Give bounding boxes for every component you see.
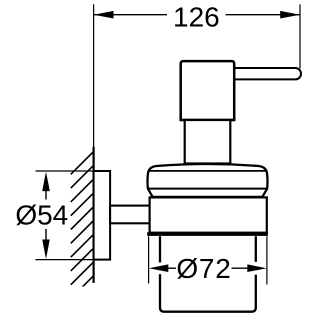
wire: right extension line of dimension 126 (spout tip) bbox=[299, 4, 301, 68]
svg-text:126: 126 bbox=[173, 2, 220, 33]
dome upper seam line bbox=[148, 170, 266, 172]
wire: left extension line of dimension 126 (wall face) bbox=[93, 4, 95, 147]
arrow down of dimension 54 bbox=[42, 240, 50, 260]
arrow left of dimension 72 bbox=[149, 264, 169, 272]
wire: dimension line 54 upper segment bbox=[45, 190, 47, 200]
halo mask over glass wall left (dimension crossing) bbox=[156, 262, 164, 274]
wall face line bbox=[92, 147, 94, 283]
dispenser dome lid bbox=[148, 164, 268, 197]
arrow up of dimension 54 bbox=[42, 172, 50, 192]
holder collar bbox=[150, 197, 267, 232]
holder arm bbox=[110, 206, 150, 224]
wire: bottom extension line of dimension 54 bbox=[36, 259, 94, 261]
wire: dimension line 54 lower segment bbox=[45, 229, 47, 241]
halo mask over glass wall right (dimension crossing) bbox=[252, 262, 260, 275]
collar base thick rim bbox=[147, 232, 268, 236]
arrow right of dimension 72 bbox=[247, 264, 266, 272]
wall plate (Ø54 rosette, side view) bbox=[94, 171, 111, 260]
wall hatching bbox=[71, 152, 94, 313]
pump head bbox=[181, 61, 235, 120]
svg-text:Ø54: Ø54 bbox=[15, 199, 68, 230]
pump head bottom edge bbox=[181, 119, 235, 121]
wire: dimension line 126 right segment bbox=[226, 14, 300, 16]
svg-text:Ø72: Ø72 bbox=[176, 253, 231, 284]
glass container bbox=[160, 236, 256, 311]
dome lower seam line bbox=[148, 188, 267, 190]
wire: right extension line of dimension 72 bbox=[266, 236, 268, 284]
pump spout bbox=[228, 68, 301, 79]
arrow left of dimension 126 bbox=[94, 11, 114, 19]
arrow right of dimension 126 bbox=[280, 11, 300, 19]
wire: dimension line 72 left segment bbox=[160, 267, 176, 269]
wire: dimension line 72 right segment bbox=[232, 267, 251, 269]
wire: left extension line of dimension 72 bbox=[148, 236, 150, 283]
wire: top extension line of dimension 54 bbox=[36, 170, 94, 172]
wire: dimension line 126 left segment bbox=[94, 14, 167, 16]
pump neck bbox=[185, 120, 231, 164]
